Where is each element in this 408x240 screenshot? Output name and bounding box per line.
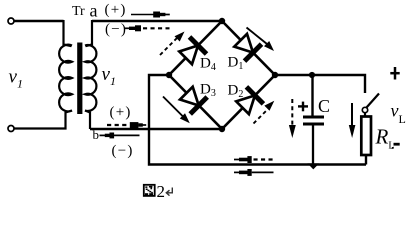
diode D3: [180, 87, 207, 114]
arrow dashed left (top, negative half cycle out of a): [124, 25, 170, 31]
transformer core bar 1: [77, 43, 82, 115]
wire primary bottom: [14, 111, 72, 129]
label + output: [390, 67, 399, 80]
bridge diamond wires: [169, 21, 275, 129]
junction node + (bridge right): [272, 72, 278, 78]
diode D2: [236, 87, 263, 114]
wire node a to bridge top: [92, 20, 222, 22]
secondary winding L2: [85, 45, 96, 111]
svg-text:b: b: [93, 127, 100, 142]
svg-text:(+): (+): [105, 2, 127, 18]
wire primary feed down: [64, 20, 72, 46]
arrow solid left (b wire, positive half cycle out of b): [100, 133, 140, 139]
arrow solid right (top, positive half cycle into a): [131, 12, 170, 18]
junction capacitor bottom: [308, 163, 320, 169]
diode D1: [234, 34, 261, 61]
wire bridge left to bottom rail: [149, 75, 366, 165]
terminal top-left: [8, 18, 14, 24]
diode D4: [179, 37, 206, 64]
arrow solid down-right (through D3): [163, 97, 190, 124]
arrow solid down (load current): [349, 103, 356, 138]
arrow dashed right (b wire, negative half cycle into b): [107, 122, 146, 128]
junction node b (bridge bottom): [219, 126, 225, 132]
wire secondary bottom to b: [85, 111, 90, 130]
svg-text:(+): (+): [110, 105, 132, 121]
label - output: [394, 143, 400, 146]
wire RL bottom: [365, 155, 367, 165]
wire node b to bridge bottom: [90, 128, 222, 130]
arrow dashed up-right (through D2): [254, 101, 275, 124]
wire primary top: [14, 20, 64, 22]
switch S: [362, 94, 379, 117]
resistor RL: [361, 117, 371, 156]
svg-text:2: 2: [157, 182, 166, 201]
wire secondary feed down from a: [86, 20, 93, 46]
svg-text:Tr: Tr: [72, 4, 85, 19]
arrow solid left (bottom rail): [234, 169, 274, 176]
arrow dashed up-right (through D4): [160, 32, 185, 56]
arrow solid down-right (through D1): [247, 28, 275, 52]
primary winding L1: [59, 45, 72, 112]
label + capacitor: [298, 102, 308, 112]
svg-text:(−): (−): [105, 22, 127, 38]
arrow dashed down (capacitor current): [289, 99, 296, 138]
terminal bottom-left: [8, 126, 14, 132]
svg-text:a: a: [90, 1, 98, 21]
wire bridge right to switch (top rail): [275, 75, 365, 93]
junction node a (bridge top): [219, 18, 225, 24]
arrow dashed left (bottom rail): [234, 156, 274, 163]
capacitor C: [303, 75, 324, 165]
caption box glyph (tu character): [144, 185, 155, 196]
junction node - (bridge left): [166, 72, 172, 78]
svg-text:(−): (−): [112, 143, 134, 159]
caption return mark: [166, 188, 172, 196]
junction capacitor top: [309, 72, 315, 78]
svg-text:C: C: [318, 96, 330, 116]
